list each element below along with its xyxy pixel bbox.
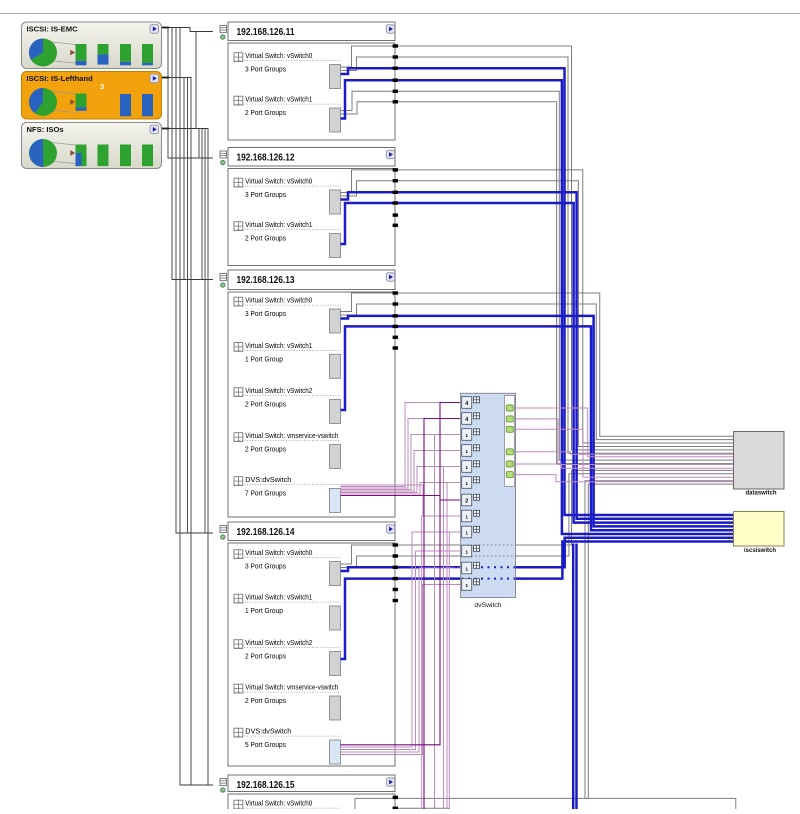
- svg-text:1: 1: [465, 433, 468, 439]
- host 192.168.126.14: [220, 522, 395, 766]
- svg-text:2 Port Groups: 2 Port Groups: [245, 696, 286, 705]
- svg-text:dvSwitch: dvSwitch: [474, 602, 501, 609]
- iscsiswitch SW2: [734, 512, 785, 555]
- wire blue trunks to iscsiswitch: [341, 68, 734, 809]
- svg-text:5 Port Groups: 5 Port Groups: [245, 740, 286, 749]
- svg-text:Virtual Switch: vSwitch1: Virtual Switch: vSwitch1: [245, 593, 312, 602]
- svg-text:1: 1: [465, 514, 468, 520]
- svg-text:Virtual Switch: vSwitch2: Virtual Switch: vSwitch2: [245, 638, 312, 647]
- svg-text:ISCSI: IS-Lefthand: ISCSI: IS-Lefthand: [27, 74, 94, 83]
- svg-text:1: 1: [465, 465, 468, 471]
- svg-text:Virtual Switch: vSwitch1: Virtual Switch: vSwitch1: [245, 220, 312, 229]
- wire gray dotted through dvSwitch: [447, 545, 527, 556]
- svg-text:Virtual Switch: vSwitch1: Virtual Switch: vSwitch1: [245, 95, 312, 104]
- svg-text:192.168.126.11: 192.168.126.11: [237, 27, 295, 38]
- svg-text:192.168.126.15: 192.168.126.15: [237, 780, 295, 791]
- svg-text:NFS: ISOs: NFS: ISOs: [27, 125, 64, 134]
- svg-text:1: 1: [465, 583, 468, 589]
- svg-text:ISCSI: IS-EMC: ISCSI: IS-EMC: [27, 24, 79, 33]
- host 192.168.126.12: [220, 148, 395, 266]
- wire gray trunks to dataswitch: [341, 46, 736, 809]
- svg-text:dataswitch: dataswitch: [746, 490, 777, 497]
- svg-text:7 Port Groups: 7 Port Groups: [245, 489, 286, 498]
- svg-text:1 Port Group: 1 Port Group: [245, 355, 283, 364]
- svg-text:Virtual Switch: vSwitch0: Virtual Switch: vSwitch0: [245, 548, 312, 557]
- svg-text:1: 1: [465, 566, 468, 572]
- svg-text:3 Port Groups: 3 Port Groups: [245, 190, 286, 199]
- svg-text:DVS:dvSwitch: DVS:dvSwitch: [245, 475, 291, 484]
- svg-text:Virtual Switch: vSwitch1: Virtual Switch: vSwitch1: [245, 341, 312, 350]
- svg-text:3: 3: [100, 82, 104, 91]
- svg-text:2 Port Groups: 2 Port Groups: [245, 445, 286, 454]
- svg-text:3 Port Groups: 3 Port Groups: [245, 65, 286, 74]
- wire storage stubs: [159, 28, 169, 129]
- svg-text:Virtual Switch: vSwitch0: Virtual Switch: vSwitch0: [245, 177, 312, 186]
- storage NFS: ISOs: [22, 123, 162, 169]
- svg-text:2: 2: [465, 498, 468, 504]
- svg-text:2 Port Groups: 2 Port Groups: [245, 234, 286, 243]
- host 192.168.126.13: [220, 270, 395, 517]
- svg-text:Virtual Switch: vSwitch0: Virtual Switch: vSwitch0: [245, 296, 312, 305]
- svg-text:1 Port Group: 1 Port Group: [245, 606, 283, 615]
- svg-text:3 Port Groups: 3 Port Groups: [245, 562, 286, 571]
- frame line top: [0, 13, 800, 15]
- svg-text:Virtual Switch: vSwitch0: Virtual Switch: vSwitch0: [245, 799, 312, 808]
- svg-text:192.168.126.13: 192.168.126.13: [237, 275, 295, 286]
- svg-text:Virtual Switch: vmservice-vswi: Virtual Switch: vmservice-vswitch: [245, 683, 338, 692]
- dvSwitch U1: [447, 393, 527, 609]
- wire blue dotted through dvSwitch: [455, 567, 527, 578]
- svg-text:2 Port Groups: 2 Port Groups: [245, 108, 286, 117]
- svg-text:3 Port Groups: 3 Port Groups: [245, 309, 286, 318]
- svg-text:2 Port Groups: 2 Port Groups: [245, 652, 286, 661]
- svg-text:Virtual Switch: vSwitch2: Virtual Switch: vSwitch2: [245, 386, 312, 395]
- wire storage-to-host web: [160, 28, 213, 786]
- svg-text:Virtual Switch: vSwitch0: Virtual Switch: vSwitch0: [245, 51, 312, 60]
- svg-text:DVS:dvSwitch: DVS:dvSwitch: [245, 727, 291, 736]
- wire pink port-group links: [341, 403, 462, 810]
- wire pink uplinks to dataswitch: [514, 408, 733, 482]
- storage ISCSI: IS-EMC: [22, 22, 162, 69]
- svg-text:Virtual Switch: vmservice-vswi: Virtual Switch: vmservice-vswitch: [245, 431, 338, 440]
- svg-text:1: 1: [465, 481, 468, 487]
- svg-text:1: 1: [465, 449, 468, 455]
- svg-text:2 Port Groups: 2 Port Groups: [245, 400, 286, 409]
- svg-text:iscsiswitch: iscsiswitch: [744, 547, 776, 554]
- storage ISCSI: IS-Lefthand: [22, 72, 162, 120]
- svg-text:1: 1: [465, 530, 468, 536]
- svg-text:1: 1: [465, 549, 468, 555]
- host 192.168.126.11: [220, 22, 395, 140]
- node host junctions: [393, 44, 398, 810]
- svg-text:192.168.126.14: 192.168.126.14: [237, 527, 295, 538]
- wire purple dvs uplinks: [341, 403, 462, 810]
- host 192.168.126.15: [220, 775, 395, 814]
- svg-text:192.168.126.12: 192.168.126.12: [237, 153, 295, 164]
- dataswitch SW1: [734, 432, 785, 497]
